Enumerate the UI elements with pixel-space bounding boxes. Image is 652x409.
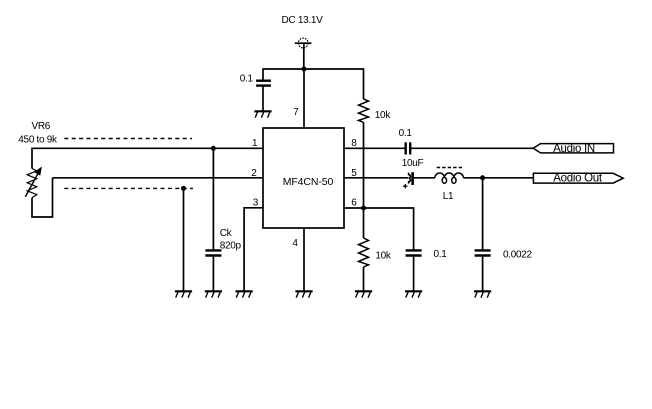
wire: pot top leg	[31, 148, 33, 169]
wire: pin 8 to series cap	[344, 147, 405, 149]
capacitor 0.1 (supply bypass)	[256, 81, 271, 86]
power connector symbol (DC input)	[295, 38, 312, 48]
svg-text:L1: L1	[443, 191, 454, 202]
resistor 10k (top, V+ to pin 6)	[359, 99, 369, 122]
potentiometer VR6 element	[27, 169, 37, 198]
wire: 0.1 shunt to ground	[413, 257, 415, 291]
node junction: output dot	[480, 175, 485, 180]
ground (pin 3)	[236, 291, 253, 297]
svg-text:VR6: VR6	[32, 121, 51, 132]
capacitor 0.1 (pin 6 shunt)	[406, 250, 422, 255]
svg-text:Audio IN: Audio IN	[553, 143, 595, 155]
svg-text:3: 3	[253, 197, 259, 208]
node: Audio IN connector flag	[533, 144, 613, 153]
wire: supply drop from connector to rail	[303, 43, 305, 69]
svg-text:10k: 10k	[375, 110, 392, 121]
wire: rail to 10k top	[363, 68, 365, 99]
svg-text:0.1: 0.1	[399, 128, 413, 139]
op-amp U1 MF4CN-50 body	[263, 128, 344, 228]
node junction: V+ rail dot	[302, 67, 307, 72]
svg-text:MF4CN-50: MF4CN-50	[283, 176, 334, 188]
svg-text:0.1: 0.1	[240, 74, 254, 85]
wire: 10k top down through pin8/pin5 lines to pin6 node	[363, 122, 365, 208]
wire: L1 to Audio Out flag	[463, 177, 533, 179]
wire: shield to ground	[183, 188, 185, 290]
wire: bypass cap to ground	[262, 87, 264, 111]
svg-text:8: 8	[351, 138, 357, 149]
wire: pin 6 line to bottom 0.1 cap branch	[344, 208, 414, 250]
wire: Ck to ground	[212, 257, 214, 291]
ground (10k bottom)	[355, 291, 372, 297]
node junction: pin 6 dot	[361, 206, 366, 211]
wire: pot bottom leg to pin 2 line	[32, 178, 53, 217]
ground (under bypass cap)	[254, 111, 271, 117]
svg-text:1: 1	[252, 138, 258, 149]
svg-text:820p: 820p	[220, 240, 242, 251]
wire: pin 3 to ground	[244, 208, 263, 291]
svg-text:6: 6	[351, 197, 357, 208]
wire: 0.0022 to ground	[482, 257, 484, 291]
svg-text:4: 4	[292, 238, 298, 249]
svg-text:Ck: Ck	[220, 228, 233, 239]
wire: shield dashed line (top)	[64, 138, 192, 140]
wire: V+ rail	[263, 68, 364, 70]
ground (shield)	[175, 291, 192, 297]
svg-text:DC 13.1V: DC 13.1V	[282, 15, 324, 26]
wire: pin 2 line	[53, 177, 264, 179]
wire: rail to bypass cap	[262, 68, 264, 79]
wire: shield dashed line (bottom)	[64, 187, 193, 189]
node: Aodio Out connector flag	[533, 173, 623, 183]
polarity label +	[403, 184, 407, 188]
node junction: shield ground dot	[181, 186, 186, 191]
inductor L1	[435, 173, 463, 183]
node junction: pin1 / Ck dot	[211, 146, 216, 151]
potentiometer VR6 wiper arrow	[25, 168, 41, 197]
wire: pin1 node down to Ck	[212, 148, 214, 249]
ground (Ck)	[205, 291, 222, 297]
svg-text:10k: 10k	[375, 250, 392, 261]
wire: 10uF to L1	[414, 177, 435, 179]
wire: pin 1 input line	[32, 147, 263, 149]
capacitor 0.1 (series, pin 8)	[406, 142, 411, 154]
capacitor 10uF (polarized)	[409, 172, 413, 185]
wire: pin 4 to ground	[303, 228, 305, 291]
wire: output node down to 0.0022	[482, 178, 484, 250]
ground (0.0022)	[474, 291, 491, 297]
svg-text:0.1: 0.1	[434, 249, 448, 260]
ground (0.1 shunt)	[405, 291, 422, 297]
svg-text:10uF: 10uF	[402, 158, 424, 169]
svg-text:450 to 9k: 450 to 9k	[18, 135, 58, 146]
capacitor 0.0022 (output shunt)	[475, 250, 491, 255]
wire: pin 7	[303, 69, 305, 128]
svg-text:7: 7	[293, 107, 299, 118]
inductor L1 core dashed line	[437, 167, 463, 169]
wire: pin 5 to 10uF	[344, 177, 408, 179]
svg-text:0.0022: 0.0022	[503, 250, 533, 261]
ground (pin 4)	[295, 291, 312, 297]
capacitor Ck 820p	[205, 250, 221, 255]
svg-text:Aodio Out: Aodio Out	[553, 173, 603, 185]
resistor 10k (bottom, pin 6 to ground)	[363, 208, 365, 238]
wire: 10k bottom to ground	[363, 267, 365, 291]
wire: series cap to Audio IN flag	[411, 147, 533, 149]
